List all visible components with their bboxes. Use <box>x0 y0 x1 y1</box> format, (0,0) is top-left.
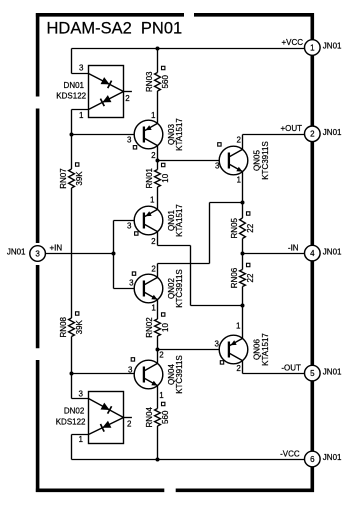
svg-text:39K: 39K <box>75 319 84 334</box>
svg-text:JN01: JN01 <box>323 128 342 137</box>
svg-text:2: 2 <box>127 420 132 429</box>
svg-text:4: 4 <box>310 249 315 258</box>
svg-text:RN07: RN07 <box>59 168 68 189</box>
svg-text:1: 1 <box>236 322 241 331</box>
svg-text:KTC3911S: KTC3911S <box>175 269 184 308</box>
svg-text:3: 3 <box>79 64 84 73</box>
svg-text:2: 2 <box>236 364 241 373</box>
svg-text:DN01: DN01 <box>64 81 85 90</box>
svg-text:3: 3 <box>35 249 40 258</box>
svg-text:RN05: RN05 <box>230 217 239 238</box>
svg-text:JN01: JN01 <box>323 247 342 256</box>
svg-text:JN01: JN01 <box>323 453 342 462</box>
svg-text:3: 3 <box>127 222 132 231</box>
svg-text:39K: 39K <box>75 171 84 186</box>
svg-text:+VCC: +VCC <box>281 38 303 47</box>
svg-text:1: 1 <box>79 435 84 444</box>
svg-text:1: 1 <box>237 176 242 185</box>
svg-text:5: 5 <box>310 369 315 378</box>
svg-text:DN02: DN02 <box>64 407 85 416</box>
svg-text:KDS122: KDS122 <box>56 417 86 426</box>
svg-text:RN01: RN01 <box>145 167 154 188</box>
svg-text:RN03: RN03 <box>145 71 154 92</box>
svg-text:2: 2 <box>310 130 315 139</box>
svg-text:1: 1 <box>79 111 84 120</box>
svg-text:KDS122: KDS122 <box>56 91 86 100</box>
svg-text:+OUT: +OUT <box>280 124 302 133</box>
svg-text:1: 1 <box>151 304 156 313</box>
svg-text:+IN: +IN <box>50 244 63 253</box>
svg-text:JN01: JN01 <box>323 42 342 51</box>
svg-text:1: 1 <box>310 43 315 52</box>
svg-text:RN04: RN04 <box>145 406 154 427</box>
svg-text:10: 10 <box>161 173 170 182</box>
svg-text:2: 2 <box>151 237 156 246</box>
svg-text:2: 2 <box>125 94 130 103</box>
svg-text:RN06: RN06 <box>230 267 239 288</box>
svg-text:3: 3 <box>79 389 84 398</box>
svg-text:3: 3 <box>215 340 220 349</box>
svg-text:KTC3911S: KTC3911S <box>261 141 270 180</box>
svg-text:2: 2 <box>237 136 242 145</box>
svg-text:6: 6 <box>310 455 315 464</box>
svg-text:22: 22 <box>246 223 255 232</box>
svg-text:KTC3911S: KTC3911S <box>175 355 184 394</box>
svg-text:KTA1517: KTA1517 <box>261 333 270 366</box>
svg-text:560: 560 <box>161 75 170 89</box>
svg-text:JN01: JN01 <box>323 367 342 376</box>
svg-text:1: 1 <box>151 111 156 120</box>
svg-text:-VCC: -VCC <box>280 449 300 458</box>
svg-text:KTA1517: KTA1517 <box>175 118 184 151</box>
svg-text:3: 3 <box>215 161 220 170</box>
svg-text:1: 1 <box>159 391 164 400</box>
svg-text:2: 2 <box>159 351 164 360</box>
svg-text:3: 3 <box>129 279 134 288</box>
svg-text:HDAM-SA2 PN01: HDAM-SA2 PN01 <box>47 20 183 38</box>
svg-text:KTA1517: KTA1517 <box>175 204 184 237</box>
svg-text:560: 560 <box>161 410 170 424</box>
svg-text:RN02: RN02 <box>145 317 154 338</box>
svg-text:2: 2 <box>151 265 156 274</box>
svg-text:JN01: JN01 <box>7 248 26 257</box>
svg-text:1: 1 <box>150 196 155 205</box>
svg-text:3: 3 <box>127 136 132 145</box>
svg-text:3: 3 <box>128 366 133 375</box>
svg-text:22: 22 <box>246 273 255 282</box>
svg-text:10: 10 <box>161 323 170 332</box>
svg-text:-IN: -IN <box>288 244 299 253</box>
svg-text:2: 2 <box>151 151 156 160</box>
svg-text:-OUT: -OUT <box>281 363 301 372</box>
svg-text:RN08: RN08 <box>59 316 68 337</box>
